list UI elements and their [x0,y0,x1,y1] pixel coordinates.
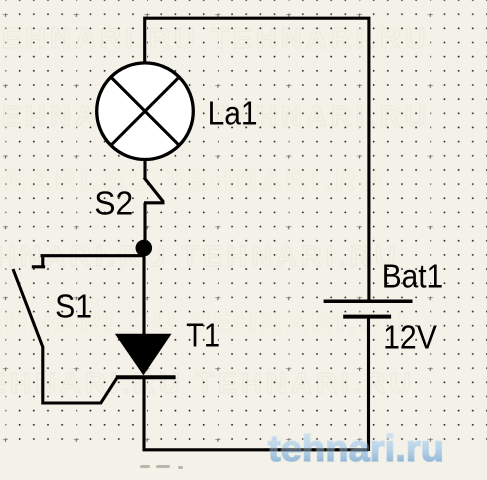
S1 fixed contact [32,256,45,267]
wire: battery negative lead [367,317,370,451]
thyristor T1 [116,334,176,377]
wire: bottom run seen through watermark [265,448,369,451]
battery Bat1 [324,301,413,316]
svg-text:Bat1: Bat1 [382,257,444,294]
switch S2 [144,178,165,203]
ghost watermark texture rows [0,23,430,400]
wire: battery lead seen through watermark [367,428,370,451]
switch S1 [13,256,145,403]
wire: S1 blade to gate [43,346,117,403]
wire: top run from lamp top over to battery top [145,18,369,300]
lamp La1 [97,63,194,160]
wire: node to thyristor anode [142,248,145,336]
wire: bottom run to battery [143,448,369,451]
wire: S2 to junction node [143,203,146,248]
wire: lamp bottom to switch S2 [143,160,146,179]
wire: thyristor cathode to bottom wire [142,377,145,451]
svg-text:La1: La1 [208,95,258,132]
watermark tehnari.ru [268,428,444,469]
svg-text:S1: S1 [55,288,92,325]
svg-text:T1: T1 [186,317,220,354]
svg-text:S2: S2 [94,185,133,222]
S1 blade [13,269,43,347]
wire: S1 contact to node [41,254,146,257]
svg-text:12V: 12V [383,319,437,356]
node junction [136,240,153,257]
